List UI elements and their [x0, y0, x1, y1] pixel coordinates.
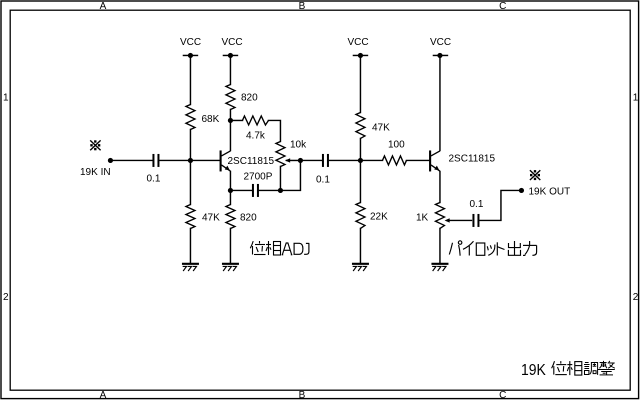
resistor 100 horizontal: [382, 156, 406, 165]
kome mark input: [90, 140, 100, 150]
wire 100 to Q2 base: [406, 159, 429, 161]
VCC rail 4 T-bar: [433, 54, 447, 56]
kanji 調: [584, 363, 598, 375]
potentiometer 10k body: [276, 141, 285, 166]
svg-text:2700P: 2700P: [244, 172, 273, 183]
ground rail2: [222, 264, 239, 271]
wire C2 to 100 through node: [329, 159, 382, 161]
kanji 相: [266, 241, 281, 255]
transistor Q1 2SC11815: [220, 150, 231, 171]
capacitor C2 0.1 mid: [323, 154, 328, 167]
node bias divider: [188, 158, 193, 163]
wire wiper node to cap C2: [300, 159, 321, 161]
svg-text:0.1: 0.1: [470, 199, 484, 210]
VCC rail 1 T-bar: [183, 54, 197, 56]
wire 10k bottom: [279, 166, 281, 190]
kanji 出: [514, 241, 516, 255]
wire 820 to collector node: [229, 109, 231, 150]
svg-text:VCC: VCC: [180, 37, 201, 48]
node Q1 collector: [228, 118, 233, 123]
ground rail4: [431, 264, 448, 271]
svg-text:A: A: [100, 390, 107, 400]
svg-text:0.1: 0.1: [147, 174, 161, 185]
letter A: [282, 243, 293, 255]
svg-text:19K: 19K: [521, 362, 546, 379]
katakana ロ: [476, 243, 485, 255]
svg-text:C: C: [499, 390, 506, 400]
potentiometer 10k wiper arrow: [285, 158, 290, 162]
wire Q2 emitter to 1K pot: [439, 171, 441, 202]
svg-text:47K: 47K: [372, 123, 390, 134]
resistor 47K bottom: [186, 204, 195, 228]
ground rail3: [352, 264, 369, 271]
svg-text:2: 2: [633, 292, 639, 303]
wire collector node to 4.7k: [230, 119, 242, 121]
svg-text:1: 1: [3, 93, 9, 104]
node dots: [108, 53, 524, 193]
resistor 68K R: [186, 104, 195, 129]
svg-text:47K: 47K: [202, 213, 220, 224]
wire input to cap C1: [110, 159, 152, 161]
svg-text:68K: 68K: [202, 114, 220, 125]
wire 4.7k to 10k top corner: [268, 120, 280, 141]
node 10k wiper: [298, 158, 303, 163]
svg-text:B: B: [299, 1, 306, 12]
svg-text:1: 1: [633, 93, 639, 104]
resistor 820 bottom: [226, 204, 235, 228]
wire VCC4 down to Q2 collector: [439, 55, 441, 150]
potentiometer 1K body: [435, 202, 444, 228]
VCC rail 3 T-bar: [353, 54, 367, 56]
kome mark output: [530, 170, 540, 180]
svg-text:100: 100: [388, 140, 405, 151]
katakana パ: [449, 243, 452, 255]
svg-text:820: 820: [241, 93, 258, 104]
kanji 力: [529, 241, 531, 245]
VCC rail 2 T-bar: [223, 54, 237, 56]
node VCC2: [228, 53, 233, 58]
wire 22K to ground: [359, 228, 361, 262]
node input terminal: [108, 158, 113, 163]
resistor 4.7k horizontal: [242, 116, 268, 125]
svg-text:VCC: VCC: [430, 37, 451, 48]
wire VCC2 down to 820: [229, 55, 231, 84]
svg-text:10k: 10k: [290, 140, 307, 151]
wire 68K to 47K through node: [189, 129, 191, 204]
resistor 47K rail3: [356, 112, 365, 138]
wire VCC3 down to 47K: [359, 55, 361, 112]
kanji 位: [552, 361, 567, 375]
svg-text:820: 820: [240, 213, 257, 224]
node stage2 bias: [358, 158, 363, 163]
wire 1K pot to ground: [439, 228, 441, 262]
svg-text:2: 2: [3, 292, 9, 303]
label 位相ADJ: [250, 241, 309, 255]
katakana ッ: [487, 246, 488, 250]
wire emitter node to 2700P: [230, 189, 251, 191]
wire 1K wiper to cap C3: [449, 219, 471, 221]
wire C1 to Q1 base: [160, 159, 220, 161]
wire Q1 emitter to 820 bottom: [229, 171, 231, 204]
svg-text:VCC: VCC: [222, 37, 243, 48]
potentiometer 1K wiper arrow: [445, 218, 450, 222]
node VCC1: [188, 53, 193, 58]
ground rail1: [182, 264, 199, 271]
kanji 相: [567, 361, 582, 375]
wire wiper node down to bottom line: [280, 160, 300, 190]
letter D: [294, 243, 303, 254]
kanji 整: [598, 361, 615, 375]
transistor Q2 2SC11815: [429, 150, 440, 171]
svg-text:4.7k: 4.7k: [246, 131, 266, 142]
node VCC4: [437, 53, 442, 58]
svg-text:2SC11815: 2SC11815: [449, 154, 496, 165]
node output terminal: [519, 188, 524, 193]
wire 47K to 22K through node: [359, 138, 361, 202]
node Q1 emitter: [228, 188, 233, 193]
svg-text:C: C: [499, 1, 506, 12]
svg-text:2SC11815: 2SC11815: [228, 156, 275, 167]
resistor 22K: [356, 202, 365, 228]
svg-text:A: A: [100, 1, 107, 12]
svg-text:1K: 1K: [416, 213, 429, 224]
letter J: [304, 243, 309, 254]
wire VCC1 down to 68K: [189, 55, 191, 104]
capacitor C1 0.1 input: [153, 154, 158, 167]
svg-text:22K: 22K: [370, 212, 388, 223]
wire 820 bottom to ground: [229, 228, 231, 262]
kanji 位: [250, 241, 265, 255]
node 10k bottom: [278, 188, 283, 193]
wire 47K to ground: [189, 228, 191, 262]
capacitor 2700P: [253, 184, 258, 197]
wire C3 to output corner: [480, 190, 522, 220]
wire 10k wiper: [286, 159, 300, 161]
svg-text:19K OUT: 19K OUT: [529, 187, 571, 198]
svg-text:19K IN: 19K IN: [80, 167, 111, 178]
title 位相調整: [552, 361, 615, 375]
svg-text:B: B: [299, 390, 306, 400]
wire 2700P to 10k bottom node: [259, 189, 281, 191]
katakana ト: [496, 242, 498, 255]
label パイロット出力: [449, 241, 536, 256]
svg-text:0.1: 0.1: [316, 175, 330, 186]
capacitor C3 0.1 output: [473, 214, 478, 227]
katakana イ: [463, 241, 474, 249]
svg-text:VCC: VCC: [348, 37, 369, 48]
resistor 820 top: [226, 84, 235, 109]
node VCC3: [358, 53, 363, 58]
